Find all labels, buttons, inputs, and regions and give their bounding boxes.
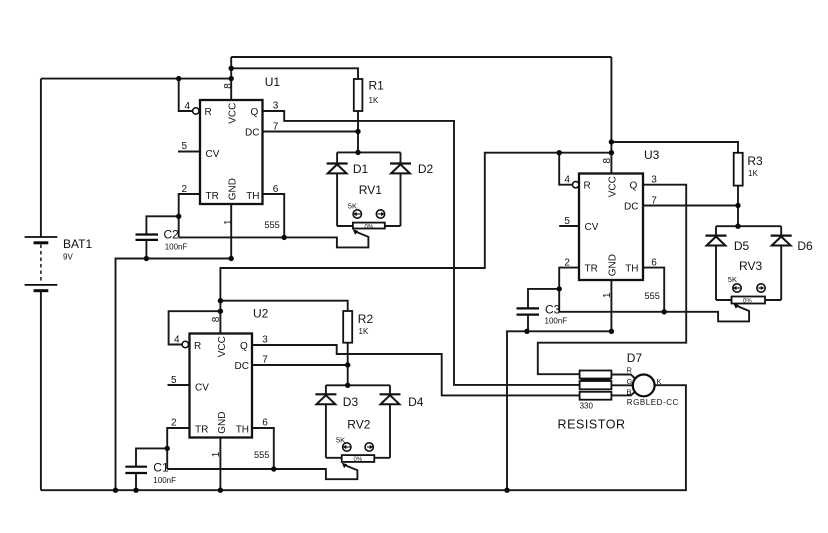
svg-text:CV: CV [195,382,209,393]
svg-text:VCC: VCC [217,336,228,357]
svg-text:7: 7 [651,196,657,207]
svg-text:TR: TR [206,191,219,202]
svg-text:R: R [205,107,212,118]
svg-text:CV: CV [206,149,220,160]
svg-text:6: 6 [651,258,657,269]
svg-text:D1: D1 [353,162,369,176]
svg-text:C3: C3 [545,303,561,317]
svg-text:100nF: 100nF [545,317,568,326]
svg-text:8: 8 [211,316,222,322]
svg-text:1: 1 [223,219,234,225]
svg-text:9V: 9V [63,253,73,262]
svg-text:U2: U2 [253,307,269,321]
svg-text:RESISTOR: RESISTOR [558,418,626,432]
svg-text:K: K [657,377,662,386]
svg-text:0%: 0% [743,298,752,304]
svg-text:5: 5 [171,375,177,386]
svg-text:BAT1: BAT1 [63,237,92,251]
svg-text:100nF: 100nF [165,242,188,251]
svg-text:DC: DC [235,361,249,372]
svg-text:555: 555 [254,450,269,460]
svg-text:1K: 1K [369,96,379,105]
svg-text:U1: U1 [265,75,281,89]
svg-text:C1: C1 [153,461,169,475]
svg-text:1K: 1K [748,169,758,178]
svg-text:GND: GND [227,178,238,200]
svg-text:4: 4 [174,334,180,345]
svg-text:VCC: VCC [608,176,619,197]
svg-text:R1: R1 [369,79,385,93]
svg-text:B: B [627,388,632,397]
svg-text:555: 555 [264,220,279,230]
svg-text:0%: 0% [365,224,374,230]
svg-text:DC: DC [624,202,638,213]
svg-text:1: 1 [211,451,222,457]
svg-text:D2: D2 [418,162,434,176]
svg-text:C2: C2 [164,228,180,242]
svg-text:2: 2 [171,418,177,429]
svg-text:TR: TR [195,424,208,435]
svg-text:3: 3 [273,101,279,112]
svg-text:D5: D5 [734,239,750,253]
svg-text:GND: GND [608,254,619,276]
svg-text:RV3: RV3 [739,259,762,273]
svg-text:RGBLED-CC: RGBLED-CC [627,398,679,407]
svg-text:D6: D6 [797,239,813,253]
svg-text:7: 7 [273,121,279,132]
svg-text:TH: TH [625,264,638,275]
svg-text:8: 8 [223,83,234,89]
svg-text:TH: TH [236,424,249,435]
svg-text:DC: DC [245,128,259,139]
svg-text:3: 3 [651,175,657,186]
svg-text:U3: U3 [644,148,660,162]
svg-text:D3: D3 [343,395,359,409]
svg-text:3: 3 [262,335,268,346]
svg-text:555: 555 [645,291,660,301]
svg-text:Q: Q [251,107,259,118]
svg-text:RV1: RV1 [359,183,382,197]
svg-text:Q: Q [240,341,248,352]
svg-text:330: 330 [580,402,594,411]
svg-text:TR: TR [585,264,598,275]
svg-text:7: 7 [262,355,268,366]
svg-text:6: 6 [262,418,268,429]
svg-text:R: R [627,366,633,375]
svg-text:R: R [584,181,591,192]
svg-text:5: 5 [564,216,570,227]
svg-text:D4: D4 [408,395,424,409]
svg-text:2: 2 [564,258,570,269]
svg-text:TH: TH [246,191,259,202]
svg-text:1K: 1K [359,327,369,336]
svg-text:4: 4 [564,175,570,186]
svg-text:5: 5 [182,141,188,152]
svg-text:CV: CV [585,222,599,233]
svg-text:GND: GND [217,412,228,434]
svg-text:RV2: RV2 [347,418,370,432]
svg-text:R: R [194,341,201,352]
svg-text:5K: 5K [348,202,357,211]
svg-text:D7: D7 [627,351,643,365]
svg-text:1: 1 [602,292,613,298]
svg-text:G: G [627,377,633,386]
svg-text:R3: R3 [747,154,763,168]
svg-text:5K: 5K [728,275,737,284]
svg-text:0%: 0% [354,457,363,463]
svg-text:6: 6 [273,184,279,195]
svg-text:8: 8 [602,158,613,164]
svg-text:Q: Q [630,181,638,192]
svg-text:R2: R2 [358,312,374,326]
svg-text:VCC: VCC [227,103,238,124]
svg-text:4: 4 [185,101,191,112]
svg-text:2: 2 [182,184,188,195]
svg-text:5K: 5K [336,435,345,444]
svg-text:100nF: 100nF [153,476,176,485]
